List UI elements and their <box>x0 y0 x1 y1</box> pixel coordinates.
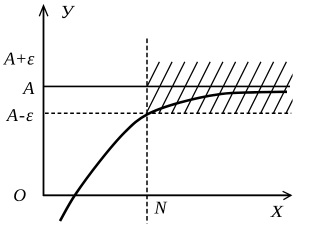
dashed line x=N <box>146 39 148 224</box>
x-axis arrowhead <box>283 191 291 199</box>
svg-text:N: N <box>154 198 168 218</box>
svg-text:A: A <box>22 78 35 98</box>
hatched band between A-eps and A+eps for x>N <box>134 62 312 114</box>
svg-text:A-ε: A-ε <box>6 105 34 125</box>
y-axis <box>43 6 45 196</box>
svg-text:O: O <box>13 185 26 205</box>
y-axis arrowhead <box>39 6 48 17</box>
dashed line y=A-eps <box>45 112 291 114</box>
svg-text:X: X <box>270 202 284 221</box>
line y=A <box>44 85 290 87</box>
svg-text:A+ε: A+ε <box>3 48 35 68</box>
curve f(x) <box>60 92 287 221</box>
x-axis <box>43 194 291 196</box>
